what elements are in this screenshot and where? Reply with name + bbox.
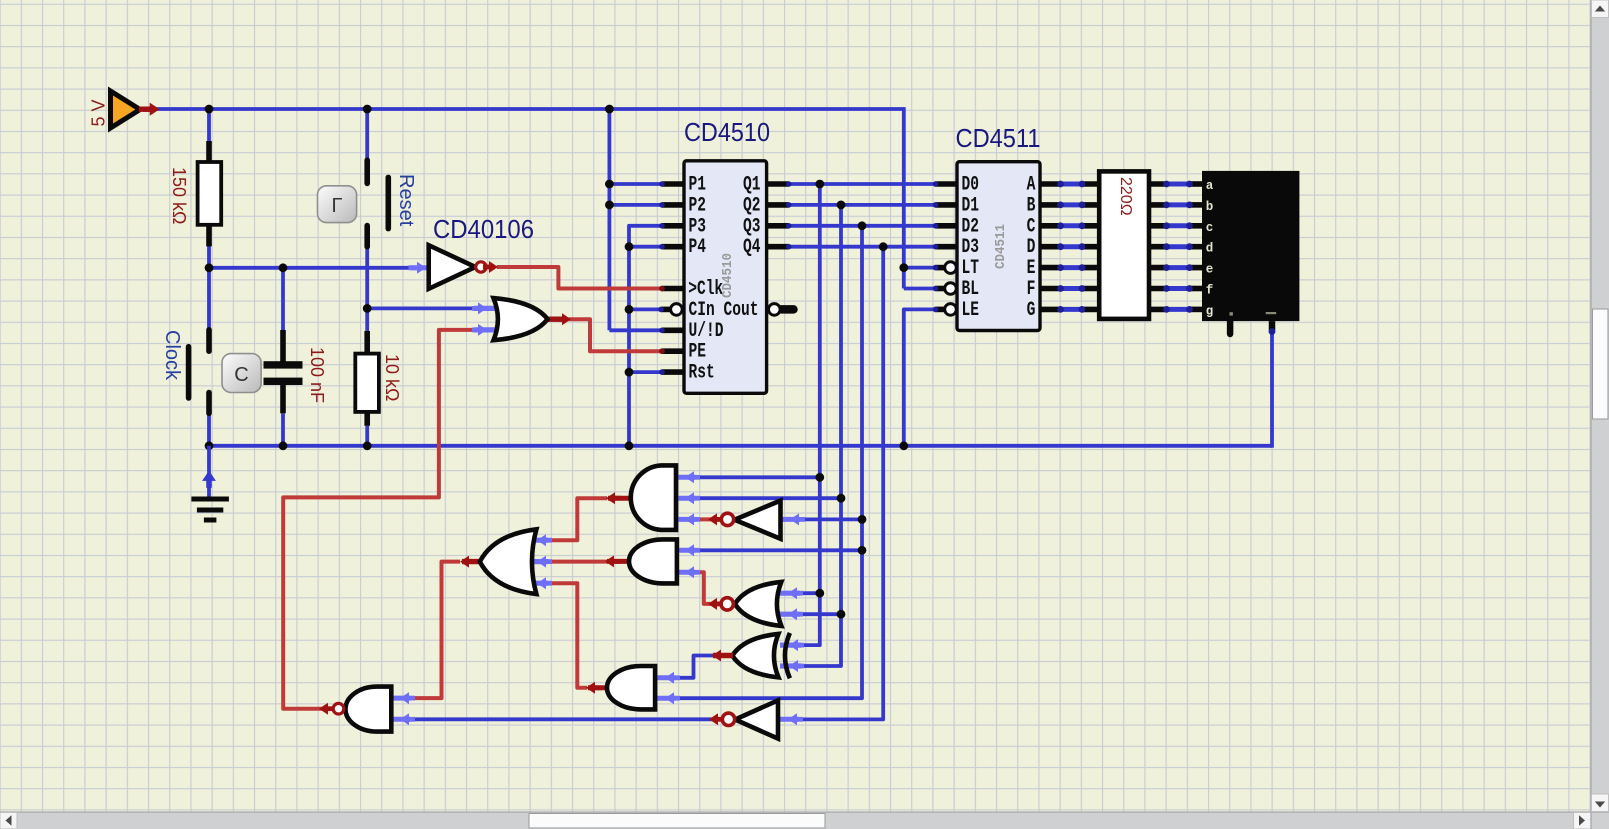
switch Reset	[364, 160, 370, 183]
svg-text:D3: D3	[962, 236, 980, 259]
resistor R1 150k body	[206, 141, 212, 162]
wire AND1 input2	[695, 496, 841, 500]
wire 10k bottom to rail	[365, 426, 369, 446]
svg-text:CD4511: CD4511	[994, 224, 1009, 269]
wire Q3 to D2	[789, 224, 936, 228]
wire 150k top	[207, 109, 211, 141]
wire Q1 branch down	[796, 184, 820, 645]
pin end dots	[659, 181, 665, 187]
not-gate NOT2	[778, 717, 799, 722]
svg-text:>Clk: >Clk	[688, 278, 723, 301]
wire cap bottom	[281, 413, 285, 446]
svg-text:P4: P4	[689, 236, 707, 259]
svg-text:b: b	[1206, 200, 1214, 214]
wire NOR output to AND2 input2	[695, 572, 713, 604]
svg-text:D0: D0	[962, 174, 980, 197]
wire OR output to PE	[569, 319, 663, 351]
svg-text:C: C	[234, 364, 248, 386]
svg-text:A: A	[1027, 174, 1036, 197]
svg-text:f: f	[1206, 284, 1214, 298]
svg-text:D2: D2	[962, 215, 980, 238]
svg-text:Q2: Q2	[743, 194, 761, 217]
svg-text:C: C	[1027, 215, 1036, 238]
resistor pack RN1 220	[1082, 181, 1099, 187]
or-gate OR2 3-input	[530, 538, 548, 543]
wire bigOR output to NAND input1	[410, 562, 460, 699]
nand-gate NAND1	[391, 696, 410, 701]
scrollbars	[1591, 0, 1609, 829]
wire display cathode down	[1270, 331, 1274, 448]
svg-text:CD4510: CD4510	[684, 117, 770, 147]
wire AND2 output to bigOR input2	[548, 560, 607, 564]
wire AND2 input1	[695, 548, 862, 552]
svg-text:Q4: Q4	[743, 236, 761, 259]
svg-text:P3: P3	[689, 215, 707, 238]
wire Q4 to D3	[789, 245, 936, 249]
wire U/!D	[609, 328, 662, 332]
inverter U2 CD40106	[417, 262, 426, 274]
svg-text:D1: D1	[962, 194, 980, 217]
svg-text:Clock: Clock	[161, 330, 183, 381]
wire rail corner down to LT/BL net	[902, 107, 906, 288]
svg-text:CD4510: CD4510	[721, 253, 736, 298]
capacitor C1 100nF	[280, 330, 286, 363]
resistor R2 10k body	[364, 331, 370, 354]
svg-text:U/!D: U/!D	[689, 320, 724, 343]
wire AND1 output to bigOR input1	[548, 498, 607, 540]
svg-text:CD4511: CD4511	[956, 123, 1041, 153]
wire P1	[609, 182, 662, 186]
svg-text:c: c	[1206, 221, 1214, 235]
svg-text:PE: PE	[689, 341, 707, 364]
wire LE to ground rail	[904, 309, 936, 445]
svg-text:220Ω: 220Ω	[1117, 177, 1134, 216]
wire clock switch top	[207, 268, 211, 330]
svg-text:E: E	[1027, 257, 1036, 280]
svg-text:P2: P2	[689, 194, 707, 217]
svg-text:d: d	[1206, 242, 1214, 256]
wire NOT1 input	[800, 518, 862, 522]
IC U1 CD4510	[662, 181, 684, 187]
wire reset switch bottom to 10k	[365, 246, 369, 333]
wire node row to inverter input	[209, 266, 409, 270]
7-segment display	[1227, 321, 1234, 334]
wire Rst	[629, 370, 662, 374]
wire CIn	[629, 307, 661, 311]
wire Q2 branch down	[796, 205, 841, 666]
svg-text:F: F	[1027, 278, 1036, 301]
wire P3 net vertical	[629, 226, 662, 446]
wire ground rail	[209, 444, 1272, 448]
wire AND1 input1	[695, 475, 819, 479]
wire AND3 output to bigOR input3	[548, 583, 587, 688]
wire Q1 to D0	[789, 182, 936, 186]
svg-text:Rst: Rst	[689, 362, 715, 385]
svg-text:Γ: Γ	[331, 195, 342, 217]
power symbol 5V	[111, 91, 141, 128]
wire P2	[609, 203, 662, 207]
wire NAND output net to OR input2	[283, 330, 474, 709]
svg-text:Q1: Q1	[743, 174, 761, 197]
wire cap top	[281, 268, 285, 332]
svg-text:LT: LT	[962, 257, 980, 280]
xor-gate XOR1	[780, 642, 801, 647]
svg-text:Reset: Reset	[395, 174, 417, 227]
wire 5V power rail	[147, 107, 904, 111]
and-gate AND3 2-input	[655, 675, 676, 680]
svg-text:g: g	[1206, 304, 1214, 318]
svg-text:G: G	[1027, 299, 1036, 322]
wire 5V to P nets vertical	[608, 109, 612, 330]
svg-text:100 nF: 100 nF	[307, 347, 327, 403]
wire XOR output to AND3 input1	[676, 656, 713, 678]
wire reset node to OR gate input	[367, 306, 474, 310]
wire inverter output to Clk	[497, 267, 662, 289]
svg-text:150 kΩ: 150 kΩ	[169, 167, 189, 225]
svg-text:P1: P1	[689, 174, 707, 197]
wire Q4 branch down	[799, 247, 884, 720]
IC U4 CD4511	[936, 181, 958, 187]
svg-text:CD40106: CD40106	[433, 214, 534, 244]
svg-text:B: B	[1027, 194, 1036, 217]
wire P4	[629, 245, 662, 249]
svg-text:CIn Cout: CIn Cout	[689, 299, 759, 322]
svg-text:e: e	[1206, 263, 1214, 277]
svg-text:D: D	[1027, 236, 1036, 259]
wire 150k bottom to node	[207, 225, 211, 268]
svg-text:a: a	[1206, 179, 1214, 193]
wire reset switch top	[365, 109, 369, 161]
and-gate AND2 2-input	[677, 548, 696, 553]
svg-text:LE: LE	[962, 299, 980, 322]
wire clock switch bottom to rail	[207, 413, 211, 446]
svg-text:Q3: Q3	[743, 215, 761, 238]
svg-text:5 V: 5 V	[89, 99, 109, 126]
and-gate AND1 3-input	[676, 475, 695, 480]
wire NOR input2	[800, 612, 841, 616]
wire NOT1 output to AND1 input3	[695, 517, 714, 521]
wire LT branch	[904, 266, 936, 270]
svg-text:BL: BL	[962, 278, 980, 301]
ground symbol	[207, 446, 211, 497]
wire BL branch	[904, 287, 936, 291]
button Clock	[222, 354, 261, 393]
wire Q2 to D1	[789, 203, 936, 207]
switch Clock	[206, 330, 212, 351]
nor-gate NOR1	[774, 591, 800, 596]
or-gate U3 top	[474, 306, 503, 311]
wire NOR input1	[800, 591, 820, 595]
wire NOT2 output to NAND input2	[410, 717, 713, 721]
svg-text:10 kΩ: 10 kΩ	[382, 354, 402, 401]
wire Q3 branch down	[676, 226, 862, 698]
junction dots	[205, 105, 214, 114]
not-gate NOT1	[781, 517, 801, 522]
